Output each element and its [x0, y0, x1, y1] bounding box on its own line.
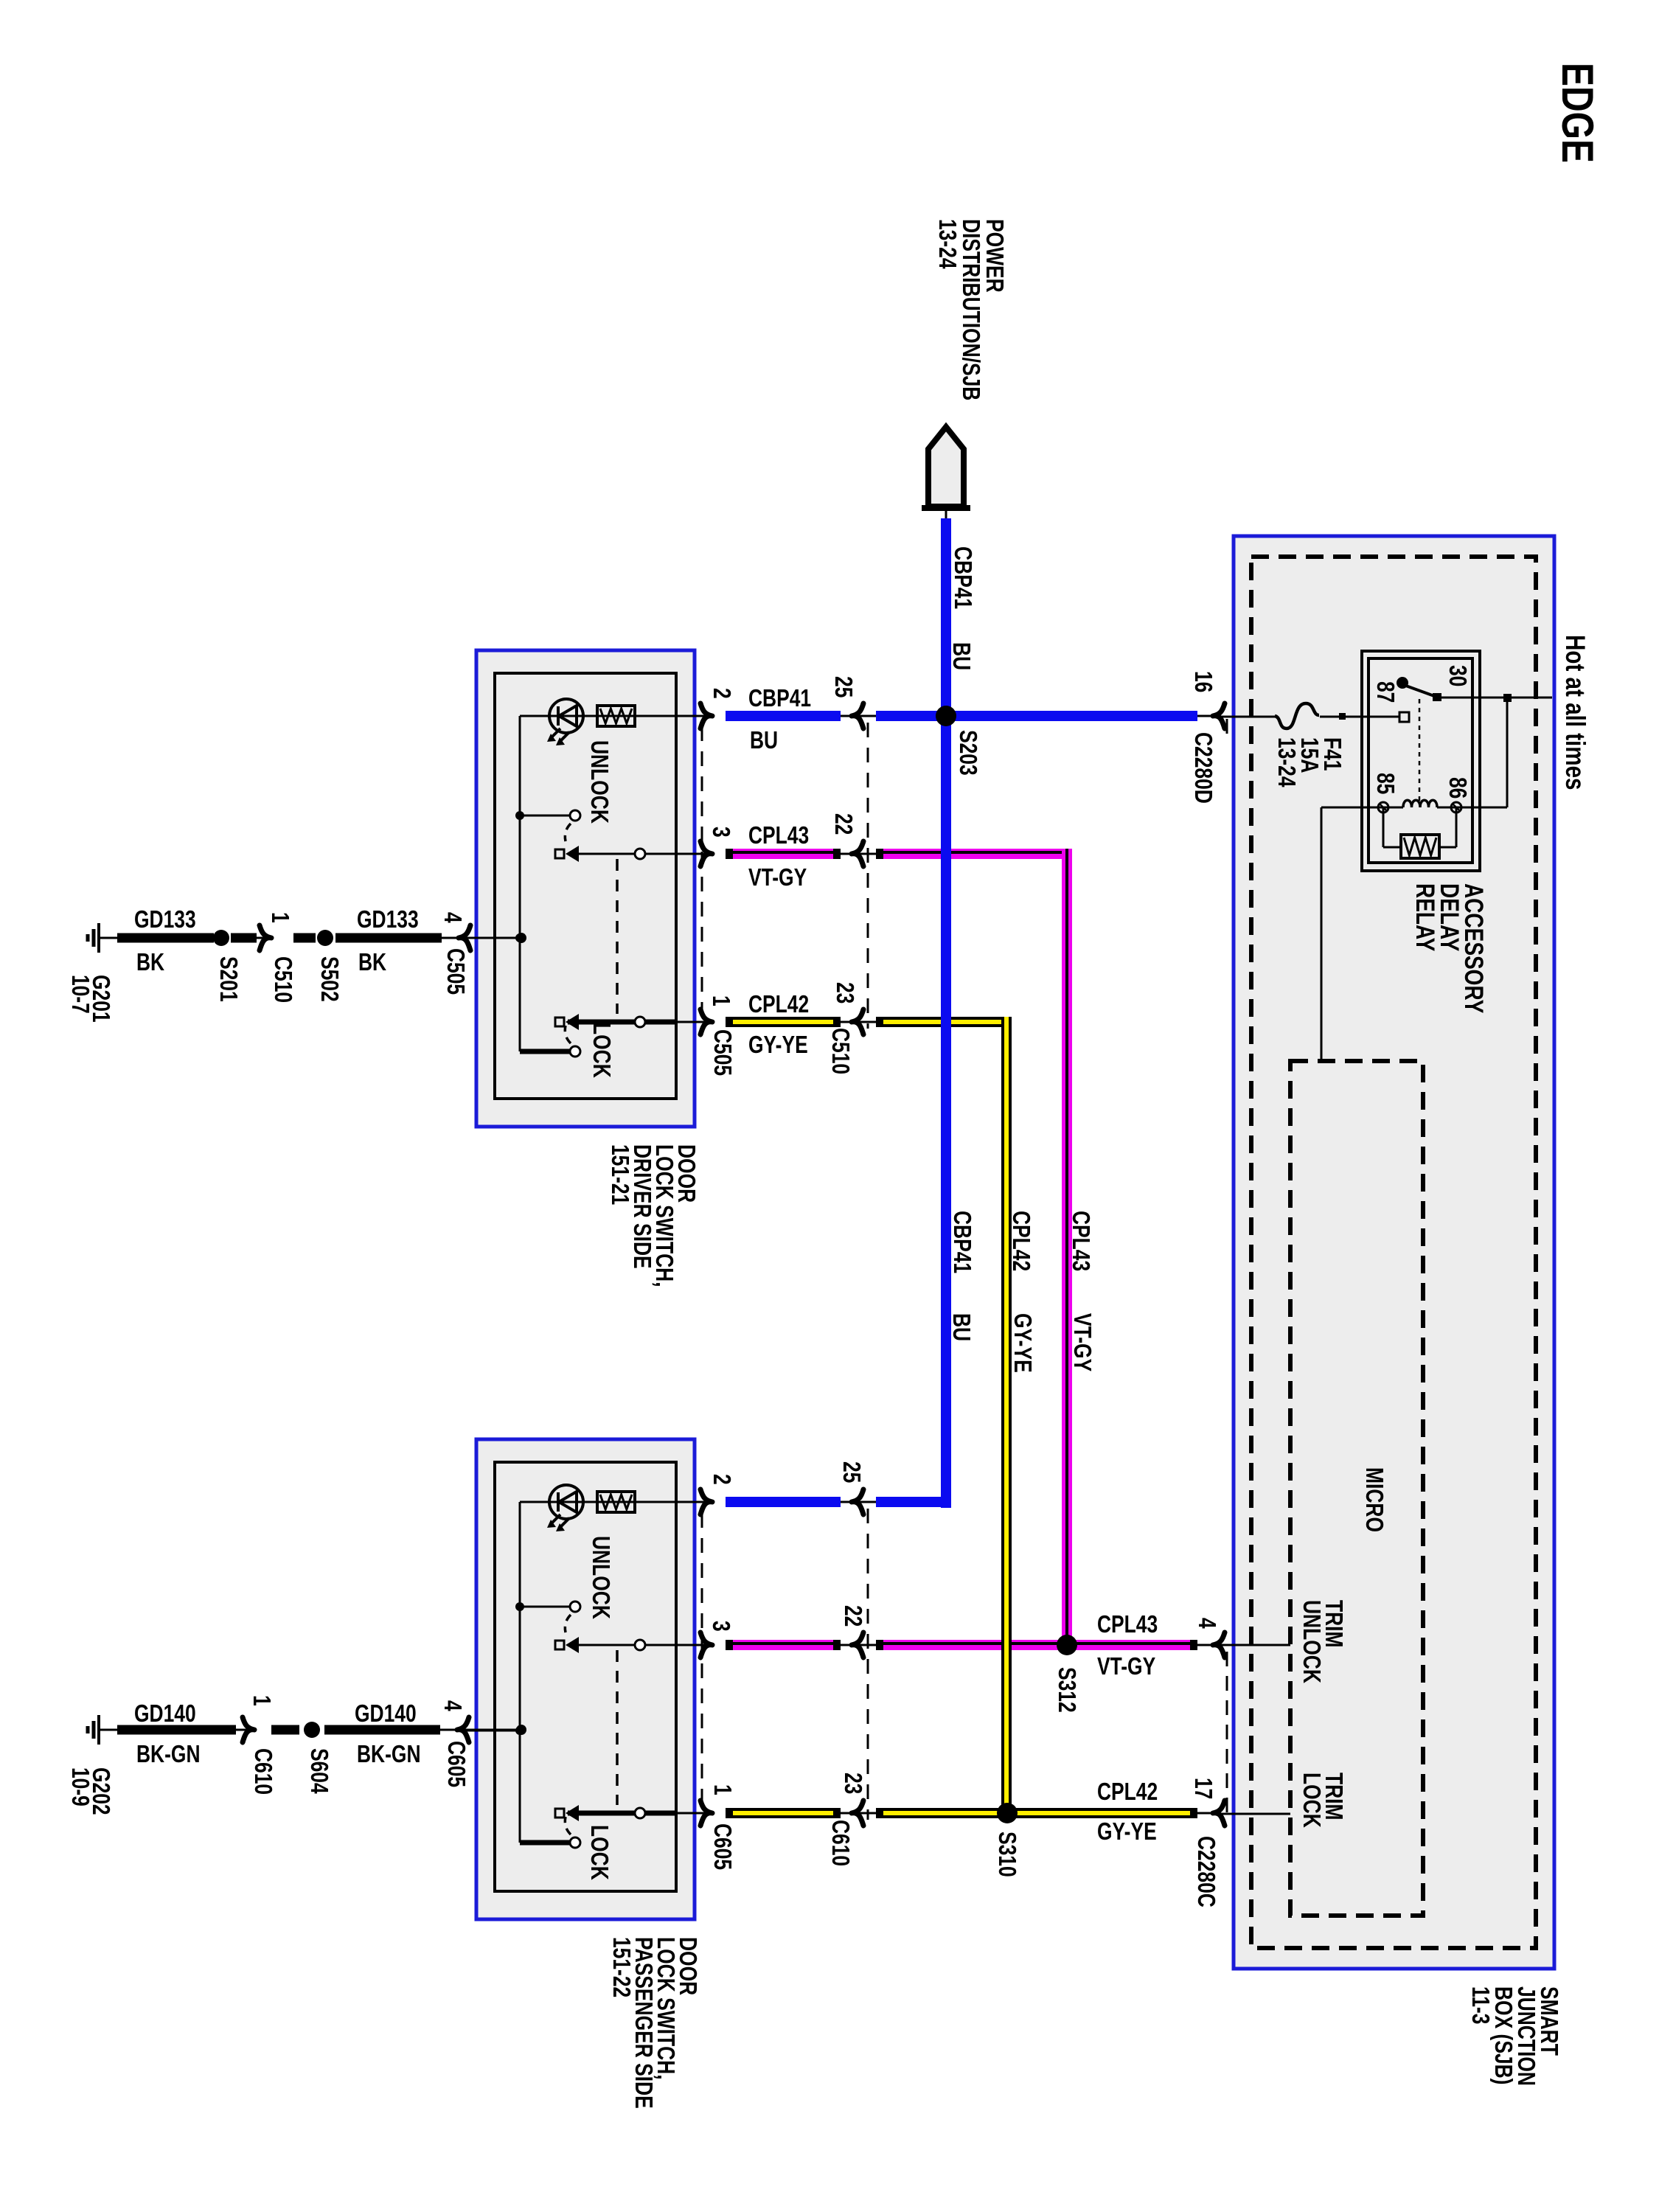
svg-text:1: 1	[707, 995, 734, 1006]
svg-text:RELAY: RELAY	[1411, 883, 1440, 951]
svg-text:1: 1	[709, 1784, 735, 1795]
svg-text:1: 1	[266, 912, 293, 923]
svg-text:S604: S604	[305, 1748, 332, 1794]
svg-text:11-3: 11-3	[1467, 1986, 1493, 2024]
svg-text:C510: C510	[827, 1028, 853, 1074]
svg-text:86: 86	[1444, 777, 1470, 799]
svg-text:CPL43: CPL43	[1097, 1611, 1158, 1638]
svg-text:10-7: 10-7	[66, 975, 93, 1014]
svg-text:BK: BK	[358, 949, 386, 975]
svg-text:GY-YE: GY-YE	[748, 1032, 808, 1058]
svg-text:16: 16	[1189, 671, 1216, 692]
svg-text:GD133: GD133	[357, 906, 419, 933]
svg-text:C510: C510	[269, 956, 296, 1003]
svg-text:10-9: 10-9	[66, 1767, 93, 1806]
svg-text:4: 4	[439, 1700, 465, 1711]
svg-text:3: 3	[707, 827, 734, 838]
svg-text:S312: S312	[1053, 1667, 1079, 1713]
svg-text:LOCK: LOCK	[1298, 1773, 1324, 1828]
svg-text:13-24: 13-24	[933, 219, 960, 269]
svg-text:CPL43: CPL43	[1067, 1211, 1093, 1271]
svg-text:GD133: GD133	[134, 906, 196, 933]
svg-text:C505: C505	[709, 1029, 735, 1076]
svg-text:C505: C505	[442, 948, 468, 995]
svg-text:87: 87	[1371, 681, 1398, 703]
svg-text:CPL42: CPL42	[1007, 1211, 1034, 1271]
svg-text:VT-GY: VT-GY	[1068, 1313, 1095, 1371]
svg-text:23: 23	[839, 1773, 866, 1794]
svg-text:4: 4	[1193, 1618, 1220, 1629]
svg-text:S502: S502	[316, 956, 342, 1002]
svg-text:CPL42: CPL42	[1097, 1778, 1158, 1805]
svg-text:MICRO: MICRO	[1360, 1467, 1387, 1532]
svg-text:UNLOCK: UNLOCK	[585, 740, 612, 824]
svg-text:151-22: 151-22	[608, 1937, 634, 1997]
svg-text:VT-GY: VT-GY	[1097, 1653, 1155, 1680]
svg-text:BU: BU	[947, 642, 974, 670]
svg-text:25: 25	[838, 1461, 864, 1483]
svg-text:C610: C610	[827, 1820, 853, 1866]
svg-text:UNLOCK: UNLOCK	[587, 1536, 613, 1619]
svg-text:1: 1	[248, 1695, 274, 1706]
svg-text:13-24: 13-24	[1273, 737, 1299, 787]
svg-text:23: 23	[831, 982, 858, 1004]
svg-text:LOCK: LOCK	[588, 1023, 614, 1078]
svg-text:GD140: GD140	[355, 1700, 417, 1727]
svg-text:CBP41: CBP41	[949, 546, 975, 609]
svg-text:Hot at all times: Hot at all times	[1559, 635, 1590, 790]
svg-text:C605: C605	[442, 1741, 469, 1787]
svg-text:EDGE: EDGE	[1553, 63, 1602, 163]
svg-text:BK-GN: BK-GN	[136, 1741, 201, 1767]
svg-text:C610: C610	[249, 1748, 276, 1795]
svg-text:GY-YE: GY-YE	[1009, 1313, 1035, 1373]
svg-text:4: 4	[439, 912, 465, 923]
svg-text:CPL43: CPL43	[748, 822, 809, 849]
svg-text:151-21: 151-21	[606, 1144, 633, 1205]
svg-text:S201: S201	[215, 956, 241, 1002]
svg-text:17: 17	[1189, 1778, 1216, 1799]
svg-text:22: 22	[829, 813, 856, 835]
svg-text:BK-GN: BK-GN	[357, 1741, 421, 1767]
svg-text:CBP41: CBP41	[748, 685, 811, 712]
svg-text:CBP41: CBP41	[948, 1211, 975, 1273]
svg-text:3: 3	[707, 1621, 734, 1632]
svg-text:C2280D: C2280D	[1189, 732, 1216, 804]
svg-text:LOCK: LOCK	[585, 1825, 612, 1880]
svg-text:UNLOCK: UNLOCK	[1298, 1600, 1324, 1683]
svg-text:DISTRIBUTION/SJB: DISTRIBUTION/SJB	[957, 219, 984, 400]
svg-text:2: 2	[708, 688, 734, 699]
svg-text:C605: C605	[709, 1823, 735, 1870]
svg-text:22: 22	[839, 1605, 866, 1627]
svg-text:25: 25	[829, 676, 856, 698]
svg-text:S203: S203	[954, 730, 981, 776]
svg-text:85: 85	[1371, 773, 1398, 794]
svg-text:BK: BK	[136, 949, 164, 975]
svg-text:POWER: POWER	[981, 219, 1007, 293]
svg-text:BU: BU	[947, 1313, 974, 1341]
svg-text:BU: BU	[750, 727, 778, 754]
svg-text:GY-YE: GY-YE	[1097, 1818, 1157, 1845]
svg-text:VT-GY: VT-GY	[748, 864, 807, 891]
svg-text:C2280C: C2280C	[1192, 1836, 1219, 1907]
svg-text:2: 2	[708, 1474, 734, 1485]
svg-text:30: 30	[1444, 665, 1470, 686]
svg-text:S310: S310	[993, 1832, 1020, 1877]
svg-text:CPL42: CPL42	[748, 991, 809, 1018]
svg-text:GD140: GD140	[134, 1700, 196, 1727]
